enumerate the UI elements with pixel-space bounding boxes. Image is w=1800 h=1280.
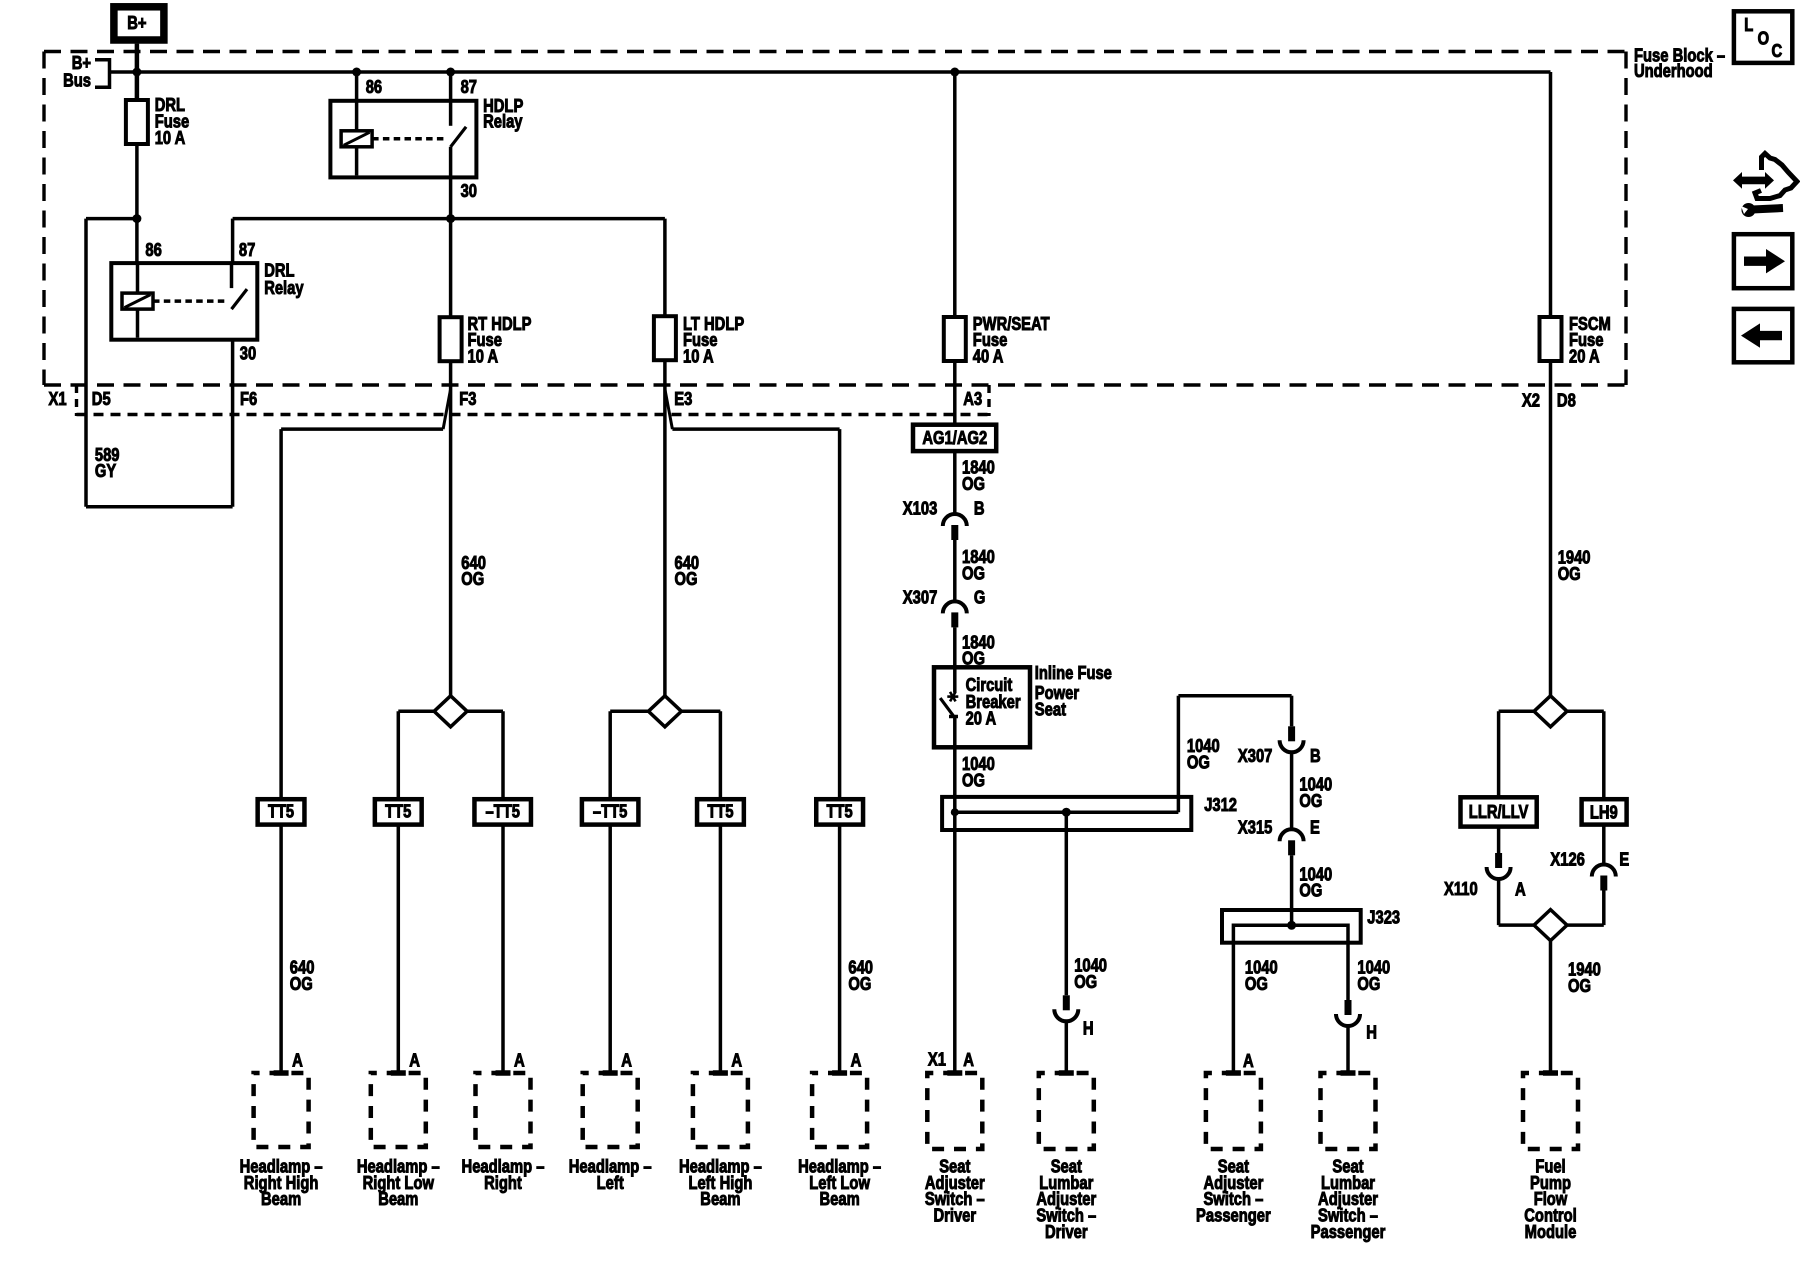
svg-text:Bus: Bus	[63, 70, 91, 90]
svg-text:Right: Right	[484, 1173, 522, 1193]
svg-text:Inline Fuse: Inline Fuse	[1035, 663, 1112, 683]
svg-text:87: 87	[239, 240, 255, 260]
svg-text:OG: OG	[848, 974, 871, 994]
svg-text:Beam: Beam	[378, 1189, 418, 1209]
wire to X110	[1497, 827, 1501, 853]
svg-text:Left: Left	[597, 1173, 624, 1193]
connector X103 pin B	[943, 514, 967, 526]
svg-text:TT5: TT5	[827, 802, 853, 822]
fuse PWR/SEAT 40 A	[944, 317, 966, 361]
wire J323 to seat adjuster passenger	[1232, 943, 1236, 1073]
connector row dotted line	[77, 413, 990, 417]
wire circuit breaker to J312	[953, 747, 957, 797]
svg-text:X126: X126	[1550, 849, 1585, 869]
svg-text:TT5: TT5	[268, 802, 294, 822]
junction on bus at HDLP relay 87	[446, 68, 455, 77]
svg-text:X1: X1	[928, 1049, 946, 1069]
svg-text:A: A	[409, 1050, 420, 1070]
headlamp component box 2: Headlamp – Right Low Beam	[371, 1073, 426, 1147]
wire HDLP 30 to DRL relay 87	[233, 217, 451, 221]
junction DRL fuse output	[132, 214, 141, 223]
junction on bus at DRL fuse	[132, 68, 141, 77]
wire FSCM fuse to diamond	[1549, 361, 1553, 696]
wire B+ to bus	[135, 44, 140, 72]
svg-text:OG: OG	[1299, 881, 1322, 901]
svg-text:OG: OG	[962, 474, 985, 494]
svg-text:OG: OG	[1187, 752, 1210, 772]
wire X307 B to X315	[1290, 752, 1294, 829]
svg-text:–TT5: –TT5	[485, 802, 520, 822]
wire J323 to H (lumbar passenger)	[1346, 943, 1350, 1000]
svg-text:B: B	[1310, 746, 1321, 766]
splice diamond (FSCM bottom)	[1534, 910, 1567, 941]
connector X1 separator	[75, 385, 78, 416]
wire H to lumbar passenger box	[1346, 1026, 1350, 1073]
svg-text:86: 86	[145, 240, 161, 260]
wire split to TT5 (RT)	[398, 710, 503, 714]
label box TT5 (col 6)	[816, 799, 863, 824]
svg-text:B+: B+	[127, 13, 146, 33]
connector X126 pin E	[1592, 865, 1616, 877]
svg-text:A3: A3	[963, 389, 982, 409]
svg-text:AG1/AG2: AG1/AG2	[922, 428, 987, 448]
svg-text:E: E	[1619, 849, 1629, 869]
wire DRL fuse to DRL relay 86	[135, 144, 139, 263]
wire X126 to bottom diamond	[1602, 891, 1606, 926]
svg-text:OG: OG	[675, 569, 698, 589]
svg-text:LLR/LLV: LLR/LLV	[1469, 802, 1529, 822]
junction on bus at HDLP relay 86	[352, 68, 361, 77]
icon view direction arrows and wrench	[1733, 172, 1774, 189]
fuse LT HDLP 10 A	[654, 316, 676, 360]
wire branch F3 to right high beam	[443, 389, 451, 429]
svg-text:E3: E3	[674, 389, 692, 409]
svg-text:X315: X315	[1238, 817, 1273, 837]
svg-text:OG: OG	[962, 770, 985, 790]
svg-text:Beam: Beam	[820, 1189, 860, 1209]
fuse block Underhood dashed enclosure	[44, 50, 1626, 53]
splice diamond (LT headlamps)	[648, 696, 681, 727]
wire TT5 to headlamp 2	[397, 825, 401, 1073]
svg-text:B: B	[974, 498, 985, 518]
svg-text:X307: X307	[1238, 746, 1273, 766]
icon LOC box	[1734, 11, 1792, 63]
svg-text:J323: J323	[1367, 907, 1400, 927]
label box AG1/AG2	[913, 425, 996, 451]
connector X307 pin G	[943, 601, 967, 613]
svg-text:L: L	[1744, 15, 1753, 35]
label box –TT5 (col 4)	[582, 799, 639, 824]
label box TT5 (col 2)	[375, 799, 422, 824]
svg-text:O: O	[1758, 28, 1770, 48]
svg-text:A: A	[963, 1050, 974, 1070]
svg-text:10 A: 10 A	[683, 347, 714, 367]
junction J312 to lumbar driver	[1062, 808, 1071, 817]
svg-text:–TT5: –TT5	[593, 802, 628, 822]
svg-text:D8: D8	[1557, 390, 1576, 410]
wire J312 to X307 B	[1177, 696, 1181, 813]
fuse DRL 10 A	[126, 100, 148, 144]
DRL relay	[111, 263, 257, 340]
svg-text:H: H	[1083, 1018, 1094, 1038]
connector pin H (lumbar driver)	[1063, 995, 1070, 1010]
icon arrow next page	[1734, 234, 1792, 288]
label box –TT5 (col 3)	[474, 799, 531, 824]
svg-text:Passenger: Passenger	[1196, 1206, 1271, 1226]
wire X307 to circuit breaker	[953, 627, 957, 667]
label box TT5 (col 5)	[697, 799, 744, 824]
wire to LH9	[1602, 711, 1606, 799]
wire to LLR/LLV	[1497, 711, 1501, 797]
wire TT5 to headlamp 4	[608, 825, 612, 1073]
HDLP relay	[330, 101, 476, 178]
splice diamond (FSCM top)	[1534, 696, 1567, 727]
wire TT5 to headlamp 3	[501, 825, 505, 1073]
svg-text:40 A: 40 A	[973, 347, 1004, 367]
fuse FSCM 20 A	[1540, 317, 1562, 361]
svg-text:A: A	[514, 1050, 525, 1070]
svg-text:LH9: LH9	[1590, 802, 1618, 822]
svg-text:OG: OG	[1245, 974, 1268, 994]
wire HDLP relay 30 down	[449, 147, 453, 317]
wire to X126	[1602, 825, 1606, 865]
svg-text:OG: OG	[962, 563, 985, 583]
wire TT5 to headlamp 1	[279, 825, 283, 1073]
svg-text:Passenger: Passenger	[1311, 1222, 1386, 1242]
connector X315 pin E	[1280, 829, 1304, 841]
headlamp component box 4: Headlamp – Left	[583, 1073, 638, 1147]
connector X307 pin B	[1288, 726, 1295, 741]
wire X103 to X307	[953, 540, 957, 601]
component box Seat Adjuster Switch Driver	[927, 1073, 982, 1149]
svg-text:A: A	[1515, 879, 1526, 899]
svg-text:D5: D5	[92, 389, 111, 409]
svg-text:A: A	[621, 1050, 632, 1070]
svg-text:10 A: 10 A	[155, 128, 186, 148]
svg-text:Relay: Relay	[264, 278, 303, 298]
wire bus to HDLP relay 87	[449, 72, 453, 101]
wire H to lumbar driver box	[1065, 1021, 1069, 1073]
svg-text:OG: OG	[1357, 974, 1380, 994]
svg-text:86: 86	[366, 77, 382, 97]
svg-text:30: 30	[461, 181, 477, 201]
wire bus to FSCM fuse	[1549, 72, 1553, 317]
svg-text:X1: X1	[49, 389, 67, 409]
wire J312 to H connector (lumbar driver)	[1065, 812, 1069, 995]
wire split to TT5 (LT)	[610, 710, 720, 714]
label box LH9	[1582, 799, 1627, 824]
svg-text:TT5: TT5	[385, 802, 411, 822]
svg-text:G: G	[974, 587, 986, 607]
svg-text:Underhood: Underhood	[1634, 61, 1713, 81]
svg-text:Beam: Beam	[700, 1189, 740, 1209]
wire PWR/SEAT fuse to AG1/AG2	[953, 361, 957, 425]
splice diamond (RT headlamps)	[434, 696, 467, 727]
connector A3 separator	[987, 385, 990, 416]
svg-text:30: 30	[240, 344, 256, 364]
svg-text:Module: Module	[1525, 1222, 1577, 1242]
wire TT5 to headlamp 5	[719, 825, 723, 1073]
svg-text:OG: OG	[1568, 976, 1591, 996]
svg-text:X307: X307	[903, 587, 938, 607]
svg-text:20 A: 20 A	[1569, 347, 1600, 367]
svg-text:X2: X2	[1522, 390, 1540, 410]
wire junction to D5	[86, 217, 137, 221]
svg-text:Driver: Driver	[933, 1206, 976, 1226]
svg-text:H: H	[1366, 1022, 1377, 1042]
svg-text:X103: X103	[903, 498, 938, 518]
wire X110 to bottom diamond	[1497, 879, 1501, 925]
junction HDLP 30 branch	[446, 214, 455, 223]
component box Seat Lumbar Adjuster Switch Passenger	[1321, 1073, 1376, 1149]
component box Seat Adjuster Switch Passenger	[1206, 1073, 1261, 1149]
wire bus to HDLP relay 86	[355, 72, 359, 101]
svg-text:OG: OG	[461, 569, 484, 589]
svg-text:X110: X110	[1444, 879, 1478, 899]
fuse RT HDLP 10 A	[440, 317, 462, 361]
wire RT HDLP fuse to diamond	[449, 361, 453, 696]
headlamp component box 1: Headlamp – Right High Beam	[254, 1073, 309, 1147]
svg-text:87: 87	[461, 77, 477, 97]
icon arrow previous page	[1734, 309, 1792, 362]
splice pack J323	[1222, 910, 1361, 943]
connector pin H (lumbar passenger)	[1345, 1000, 1352, 1015]
wire split LLR/LLV and LH9	[1499, 710, 1604, 714]
component box Fuel Pump Flow Control Module	[1523, 1073, 1578, 1149]
wire TT5 to headlamp 6	[838, 825, 842, 1073]
svg-text:TT5: TT5	[707, 802, 733, 822]
wire branch E3 to left low beam	[665, 389, 673, 429]
svg-text:20 A: 20 A	[966, 708, 997, 728]
splice pack J312	[942, 797, 1191, 830]
wire X315 to J323	[1290, 855, 1294, 925]
wire D5 loop to F6	[86, 505, 233, 509]
headlamp component box 6: Headlamp – Left Low Beam	[812, 1073, 867, 1147]
wire J312 through to seat adjuster driver	[953, 797, 957, 1073]
svg-text:J312: J312	[1204, 795, 1237, 815]
wire bus to DRL fuse	[135, 72, 140, 100]
B+ Bus bracket	[95, 60, 110, 88]
wire B+ bus	[110, 70, 1551, 74]
svg-text:10 A: 10 A	[468, 347, 499, 367]
junction on bus at PWR/SEAT fuse	[950, 68, 959, 77]
wire diamond to fuel pump module	[1549, 941, 1553, 1073]
svg-text:E: E	[1310, 817, 1320, 837]
battery B+ terminal box	[114, 7, 164, 40]
svg-text:GY: GY	[95, 461, 116, 481]
headlamp component box 5: Headlamp – Left High Beam	[693, 1073, 748, 1147]
svg-text:Driver: Driver	[1045, 1222, 1088, 1242]
svg-text:OG: OG	[290, 974, 313, 994]
svg-text:OG: OG	[1299, 791, 1322, 811]
svg-text:A: A	[1243, 1051, 1254, 1071]
wire AG1/AG2 to X103	[953, 451, 957, 514]
svg-text:OG: OG	[1074, 972, 1097, 992]
wire LT HDLP fuse to diamond	[663, 360, 667, 696]
svg-text:A: A	[851, 1050, 862, 1070]
svg-text:A: A	[731, 1050, 742, 1070]
circuit breaker 20 A inline fuse power seat	[934, 667, 1030, 747]
component box Seat Lumbar Adjuster Switch Driver	[1039, 1073, 1094, 1149]
svg-text:F6: F6	[240, 389, 257, 409]
svg-text:F3: F3	[459, 389, 476, 409]
svg-text:Relay: Relay	[483, 112, 522, 132]
svg-text:C: C	[1772, 41, 1783, 61]
svg-text:Seat: Seat	[1035, 699, 1066, 719]
label box TT5 (col 1)	[258, 799, 305, 824]
svg-text:Beam: Beam	[261, 1189, 301, 1209]
svg-text:OG: OG	[1558, 564, 1581, 584]
label box LLR/LLV	[1461, 797, 1537, 826]
connector X110 pin A	[1495, 853, 1502, 868]
headlamp component box 3: Headlamp – Right	[476, 1073, 531, 1147]
wire to LT HDLP fuse	[451, 217, 665, 221]
wire bus to PWR/SEAT fuse	[953, 72, 957, 317]
svg-text:A: A	[292, 1050, 303, 1070]
